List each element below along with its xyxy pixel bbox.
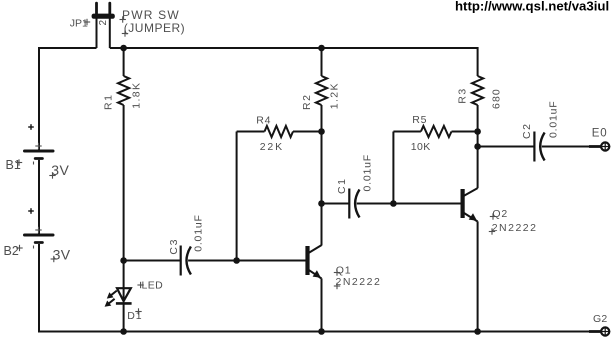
svg-text:1.2K: 1.2K [329,82,341,109]
svg-text:R2: R2 [301,93,313,110]
svg-text:C2: C2 [521,122,533,139]
svg-text:D1: D1 [127,310,142,322]
svg-text:Q2: Q2 [492,208,508,220]
svg-text:2N2222: 2N2222 [336,276,382,288]
svg-text:R5: R5 [412,114,427,126]
svg-text:680: 680 [490,88,502,109]
svg-text:3V: 3V [51,162,69,178]
svg-text:B2: B2 [4,244,19,258]
svg-text:3V: 3V [53,246,71,262]
svg-text:0.01uF: 0.01uF [548,101,560,139]
svg-text:Q1: Q1 [336,264,352,276]
svg-text:JP1: JP1 [70,17,88,29]
svg-text:R4: R4 [256,114,271,126]
svg-text:C3: C3 [168,238,180,255]
svg-text:http://www.qsl.net/va3iul: http://www.qsl.net/va3iul [455,0,609,14]
svg-text:(JUMPER): (JUMPER) [124,21,185,35]
svg-text:2: 2 [98,19,109,25]
svg-text:G2: G2 [593,313,607,325]
svg-text:R1: R1 [103,93,115,110]
svg-text:B1: B1 [6,158,21,172]
svg-text:0.01uF: 0.01uF [192,214,204,252]
svg-text:C1: C1 [336,177,348,194]
svg-text:1.8K: 1.8K [131,82,143,109]
svg-text:22K: 22K [260,141,284,153]
svg-text:2N2222: 2N2222 [492,222,538,234]
svg-text:E0: E0 [592,128,608,140]
svg-text:R3: R3 [456,87,468,104]
svg-text:0.01uF: 0.01uF [362,154,374,192]
svg-text:10K: 10K [411,141,431,153]
svg-text:LED: LED [142,280,164,292]
